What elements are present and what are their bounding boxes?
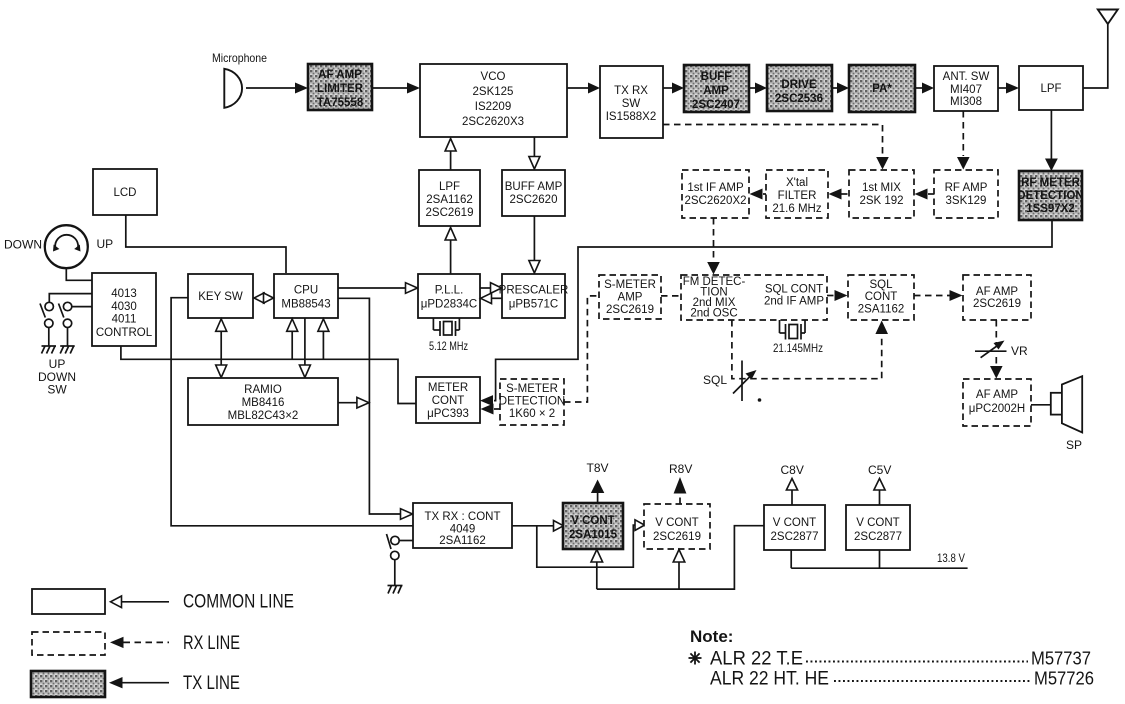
svg-text:C5V: C5V bbox=[868, 463, 891, 477]
svg-text:LPF: LPF bbox=[1040, 83, 1061, 95]
wire KEY SW left to TX RX CONT bbox=[171, 298, 413, 526]
svg-text:LPF: LPF bbox=[439, 181, 460, 193]
switch UP bbox=[40, 302, 53, 327]
svg-text:LCD: LCD bbox=[113, 187, 136, 199]
wire mic to AF AMP bbox=[246, 87, 296, 89]
wire ANT SW to LPF bbox=[998, 87, 1007, 89]
svg-text:IS2209: IS2209 bbox=[475, 101, 511, 113]
wire BUFF AMP to DRIVE bbox=[749, 87, 756, 89]
wire AF AMP to speaker bbox=[1031, 404, 1051, 406]
svg-text:X'tal: X'tal bbox=[786, 177, 808, 189]
svg-text:SQL CONT: SQL CONT bbox=[765, 284, 823, 296]
svg-text:1st IF AMP: 1st IF AMP bbox=[687, 182, 744, 194]
AF AMP 2SC2619 bbox=[963, 275, 1031, 320]
svg-text:DETECTION: DETECTION bbox=[499, 396, 565, 408]
13.8 V rail bbox=[791, 550, 967, 568]
svg-text:4030: 4030 bbox=[111, 301, 137, 313]
wire VCO to LPF2 (arrow up into VCO) bbox=[450, 150, 452, 170]
wire CPU bottom left (arrow up) bbox=[291, 331, 293, 359]
wire TX RX SW to BUFF AMP bbox=[663, 87, 673, 89]
bidirectional wire KEY SW to RAMIO bbox=[220, 331, 222, 366]
AF AMP LIMITER TA75558 bbox=[308, 64, 372, 110]
svg-text:2SC2620: 2SC2620 bbox=[510, 194, 558, 206]
svg-text:BUFF: BUFF bbox=[701, 71, 732, 83]
svg-text:RF METER: RF METER bbox=[1021, 177, 1080, 189]
C5V arrow bbox=[868, 463, 891, 505]
ground (UP switch) bbox=[42, 346, 57, 354]
wire CPU to PLL bbox=[338, 287, 406, 289]
svg-text:P.L.L.: P.L.L. bbox=[435, 285, 464, 297]
wire CPU bottom middle to RAMIO (arrow down) bbox=[304, 318, 306, 366]
note line 2 ALR 22 HT. HE M57726 bbox=[710, 669, 1094, 690]
svg-text:ANT. SW: ANT. SW bbox=[943, 71, 990, 83]
dashed wire TX RX SW to 1st MIX bbox=[663, 125, 883, 157]
DRIVE 2SC2536 bbox=[767, 65, 832, 111]
svg-text:1K60 × 2: 1K60 × 2 bbox=[509, 408, 555, 420]
svg-text:COMMON LINE: COMMON LINE bbox=[183, 592, 294, 613]
AF AMP uPC2002H bbox=[963, 379, 1031, 426]
wire switch1 to CONTROL bbox=[49, 294, 92, 302]
svg-text:CONT: CONT bbox=[432, 395, 465, 407]
wire AF AMP to VCO bbox=[372, 87, 408, 89]
SQL CONT 2SA1162 bbox=[848, 275, 914, 320]
svg-text:R8V: R8V bbox=[669, 462, 692, 476]
svg-text:2SA1015: 2SA1015 bbox=[569, 529, 618, 541]
svg-text:IS1588X2: IS1588X2 bbox=[606, 111, 657, 123]
S-METER DETECTION 1K60x2 bbox=[499, 379, 565, 425]
V CONT 2SA1015 bbox=[563, 503, 623, 549]
dashed wire 1st IF AMP down to FM DETECTION bbox=[713, 218, 715, 261]
svg-text:2SC2877: 2SC2877 bbox=[854, 531, 902, 543]
T8V arrow bbox=[587, 461, 609, 503]
svg-text:M57726: M57726 bbox=[1034, 669, 1094, 689]
RF AMP 3SK129 bbox=[934, 170, 998, 218]
svg-text:Microphone: Microphone bbox=[212, 51, 267, 65]
X tal FILTER 21.6MHz bbox=[766, 170, 828, 218]
svg-text:MB8416: MB8416 bbox=[242, 397, 285, 409]
svg-text:DETECTION: DETECTION bbox=[1017, 190, 1083, 202]
VCO bbox=[420, 64, 567, 137]
svg-text:μPB571C: μPB571C bbox=[509, 299, 558, 311]
svg-text:AF AMP: AF AMP bbox=[976, 389, 1019, 401]
dashed arrow 1st MIX to X tal FILTER bbox=[841, 193, 849, 195]
ANT. SW MI407 MI308 bbox=[934, 66, 998, 111]
svg-text:BUFF AMP: BUFF AMP bbox=[505, 181, 563, 193]
svg-text:CONT: CONT bbox=[865, 291, 898, 303]
svg-text:RAMIO: RAMIO bbox=[244, 384, 282, 396]
svg-text:1st MIX: 1st MIX bbox=[862, 182, 901, 194]
svg-text:3SK129: 3SK129 bbox=[946, 195, 987, 207]
svg-text:V CONT: V CONT bbox=[655, 517, 698, 529]
wire PLL to LPF2 (arrow up) bbox=[450, 239, 452, 274]
rail wire TX RX CONT junction down and right bbox=[537, 525, 637, 567]
svg-text:VR: VR bbox=[1011, 344, 1028, 358]
P.L.L. uPD2834C bbox=[418, 274, 480, 318]
wire BUFF AMP 2SC2620 down to PRESCALER bbox=[533, 216, 535, 262]
svg-text:CPU: CPU bbox=[294, 285, 318, 297]
svg-text:AMP: AMP bbox=[618, 292, 643, 304]
svg-text:METER: METER bbox=[428, 382, 468, 394]
RAMIO MB8416 MBL82C43x2 bbox=[188, 378, 338, 425]
svg-text:V CONT: V CONT bbox=[773, 517, 816, 529]
bus wire CPU right to TX RX CONT bbox=[338, 298, 401, 514]
svg-text:μPC2002H: μPC2002H bbox=[969, 403, 1026, 415]
svg-text:μPD2834C: μPD2834C bbox=[421, 299, 478, 311]
switch DOWN bbox=[59, 302, 72, 327]
note reference mark bbox=[689, 652, 702, 665]
rotary dial UP/DOWN bbox=[4, 225, 113, 268]
svg-text:2SA1162: 2SA1162 bbox=[426, 194, 472, 206]
wire LPF down to RF METER DETECTION bbox=[1050, 110, 1052, 160]
4013 4030 4011 CONTROL bbox=[92, 273, 156, 346]
arrows PLL / PRESCALER bbox=[480, 283, 502, 304]
svg-text:V CONT: V CONT bbox=[571, 515, 614, 527]
svg-text:2SK125: 2SK125 bbox=[473, 86, 514, 98]
svg-text:T8V: T8V bbox=[587, 461, 609, 475]
V CONT 2SC2877 (C5V) bbox=[846, 505, 910, 550]
svg-text:SQL: SQL bbox=[703, 373, 727, 387]
1st MIX 2SK 192 bbox=[849, 170, 914, 218]
VR potentiometer bbox=[975, 341, 1028, 359]
PTT switch bbox=[387, 534, 414, 586]
R8V arrow bbox=[669, 462, 692, 504]
svg-text:2SC2407: 2SC2407 bbox=[692, 99, 740, 111]
svg-text:4013: 4013 bbox=[111, 288, 137, 300]
dashed arrow X tal FILTER to 1st IF AMP bbox=[763, 193, 766, 195]
note line 1 ALR 22 T.E M57737 bbox=[710, 649, 1091, 670]
wire switch2 to ground bbox=[67, 328, 69, 347]
V CONT 2SC2619 bbox=[644, 504, 710, 549]
svg-text:UP: UP bbox=[97, 237, 114, 251]
dashed wire FM DETECTION bottom to SQL CONT bottom bbox=[732, 320, 882, 379]
dashed wire S-METER DETECTION to S-METER AMP bbox=[564, 296, 599, 402]
wire VCO down to BUFF AMP 2SC2620 bbox=[533, 137, 535, 158]
dashed arrow S-METER DETECTION to METER CONT bbox=[494, 408, 500, 410]
svg-text:KEY SW: KEY SW bbox=[198, 291, 243, 303]
svg-text:RX LINE: RX LINE bbox=[183, 633, 240, 654]
svg-text:TA75558: TA75558 bbox=[317, 97, 364, 109]
svg-text:4011: 4011 bbox=[112, 314, 137, 326]
svg-text:2nd OSC: 2nd OSC bbox=[690, 308, 737, 320]
wire switch1 to ground bbox=[48, 328, 50, 347]
svg-text:2SA1162: 2SA1162 bbox=[439, 535, 485, 547]
BUFF AMP 2SC2620 bbox=[502, 170, 565, 216]
LPF 2SA1162 2SC2619 bbox=[419, 170, 480, 226]
svg-text:SW: SW bbox=[47, 383, 67, 397]
svg-text:1SS97X2: 1SS97X2 bbox=[1026, 203, 1075, 215]
svg-text:Note:: Note: bbox=[690, 627, 733, 646]
svg-text:PRESCALER: PRESCALER bbox=[499, 285, 569, 297]
svg-text:2SC2536: 2SC2536 bbox=[775, 93, 823, 105]
SQL potentiometer bbox=[703, 361, 761, 402]
S-METER AMP 2SC2619 bbox=[599, 275, 661, 319]
wire RF METER DETECTION to METER CONT bbox=[494, 220, 1052, 401]
svg-text:DOWN: DOWN bbox=[4, 238, 42, 252]
crystal 5.12 MHz bbox=[429, 318, 468, 353]
svg-text:SW: SW bbox=[622, 98, 641, 110]
svg-text:PA*: PA* bbox=[872, 83, 892, 95]
V CONT 2SC2877 (C8V) bbox=[764, 505, 825, 550]
svg-text:SP: SP bbox=[1066, 438, 1082, 452]
svg-text:AF AMP: AF AMP bbox=[976, 286, 1019, 298]
BUFF AMP 2SC2407 bbox=[684, 65, 749, 112]
svg-text:4049: 4049 bbox=[450, 524, 476, 536]
svg-text:CONTROL: CONTROL bbox=[96, 327, 153, 339]
wire RAMIO to bus (arrow right) bbox=[338, 402, 358, 404]
ground (DOWN switch) bbox=[60, 346, 74, 354]
svg-text:TX RX : CONT: TX RX : CONT bbox=[424, 511, 500, 523]
svg-text:2SC2620X3: 2SC2620X3 bbox=[462, 116, 524, 128]
dashed wire S-METER AMP to FM DETECTION bbox=[661, 295, 681, 297]
microphone bbox=[212, 51, 267, 108]
svg-text:ALR 22 T.E: ALR 22 T.E bbox=[710, 649, 803, 670]
legend RX LINE bbox=[32, 632, 240, 655]
METER CONT uPC393 bbox=[416, 377, 480, 423]
LPF (output) bbox=[1019, 66, 1083, 110]
wire TX RX CONT to V CONT 2SA1015 with junction bbox=[512, 525, 555, 527]
RF METER DETECTION 1SS97X2 bbox=[1017, 171, 1083, 220]
supply rail to V CONT bottoms bbox=[597, 526, 764, 589]
wire VCO to TX RX SW bbox=[567, 87, 589, 89]
dashed wire AF AMP 2SC2619 to VR to AF AMP uPC2002H bbox=[995, 320, 997, 345]
wire dial to CONTROL bbox=[66, 268, 92, 280]
svg-text:SQL: SQL bbox=[869, 279, 893, 291]
wire LCD to CPU bbox=[126, 215, 286, 273]
dashed arrow RF AMP to 1st MIX bbox=[928, 193, 934, 195]
wire switch2 to CONTROL bbox=[72, 306, 92, 308]
svg-text:2SC2619: 2SC2619 bbox=[653, 531, 701, 543]
svg-text:V CONT: V CONT bbox=[856, 517, 899, 529]
svg-text:21.6 MHz: 21.6 MHz bbox=[772, 203, 821, 215]
PA* bbox=[849, 65, 915, 112]
PRESCALER uPB571C bbox=[499, 274, 569, 318]
antenna bbox=[1083, 10, 1118, 89]
crystal 21.145 MHz bbox=[773, 320, 823, 355]
svg-text:LIMITER: LIMITER bbox=[317, 83, 364, 95]
svg-text:2SC2619: 2SC2619 bbox=[426, 207, 474, 219]
svg-text:DRIVE: DRIVE bbox=[781, 79, 816, 91]
label UP DOWN SW bbox=[38, 357, 76, 397]
svg-text:MBL82C43×2: MBL82C43×2 bbox=[228, 410, 299, 422]
1st IF AMP 2SC2620X2 bbox=[682, 170, 749, 218]
svg-text:AF AMP: AF AMP bbox=[318, 69, 362, 81]
LCD bbox=[93, 169, 157, 215]
svg-text:C8V: C8V bbox=[781, 463, 804, 477]
svg-text:S-METER: S-METER bbox=[506, 383, 558, 395]
svg-text:RF AMP: RF AMP bbox=[945, 182, 988, 194]
dashed arrow FM DETECTION to SQL CONT bbox=[827, 295, 836, 297]
legend COMMON LINE bbox=[32, 589, 294, 614]
svg-text:2SK 192: 2SK 192 bbox=[859, 195, 903, 207]
svg-text:FILTER: FILTER bbox=[778, 190, 817, 202]
svg-text:AMP: AMP bbox=[703, 85, 729, 97]
svg-text:2SC2620X2: 2SC2620X2 bbox=[684, 195, 746, 207]
CPU MB88543 bbox=[274, 274, 338, 318]
TX RX : CONT 4049 2SA1162 bbox=[413, 503, 512, 548]
svg-text:S-METER: S-METER bbox=[604, 279, 656, 291]
C8V arrow bbox=[781, 463, 804, 505]
dashed arrow SQL CONT to AF AMP 2SC2619 bbox=[914, 295, 951, 297]
FM DETECTION 2nd MIX 2nd OSC / SQL CONT 2nd IF AMP bbox=[681, 275, 827, 320]
wire PA to ANT SW bbox=[915, 87, 922, 89]
svg-text:MB88543: MB88543 bbox=[281, 299, 330, 311]
svg-text:2SA1162: 2SA1162 bbox=[858, 304, 904, 316]
svg-text:2SC2619: 2SC2619 bbox=[606, 304, 654, 316]
dashed wire ANT SW to RF AMP bbox=[962, 111, 964, 156]
speaker SP bbox=[1051, 376, 1082, 452]
svg-text:UP: UP bbox=[49, 357, 66, 371]
svg-text:M57737: M57737 bbox=[1031, 649, 1091, 669]
svg-text:TX RX: TX RX bbox=[614, 85, 648, 97]
svg-text:MI308: MI308 bbox=[950, 96, 982, 108]
svg-text:21.145MHz: 21.145MHz bbox=[773, 341, 823, 355]
KEY SW bbox=[188, 274, 253, 318]
bidirectional arrows KEY SW / CPU bbox=[254, 293, 274, 303]
svg-text:13.8 V: 13.8 V bbox=[937, 551, 965, 565]
svg-text:TX LINE: TX LINE bbox=[183, 673, 240, 694]
legend TX LINE bbox=[31, 671, 240, 697]
wire DRIVE to PA bbox=[832, 87, 838, 89]
svg-text:2SC2877: 2SC2877 bbox=[771, 531, 819, 543]
svg-text:MI407: MI407 bbox=[950, 84, 982, 96]
svg-text:μPC393: μPC393 bbox=[427, 408, 469, 420]
ground (PTT switch) bbox=[388, 586, 403, 594]
wire V CONT 2SC2619 bottom (arrow up) bbox=[678, 561, 680, 589]
svg-text:2SC2619: 2SC2619 bbox=[973, 298, 1021, 310]
wire CONTROL bottom to METER CONT bbox=[121, 346, 416, 404]
svg-text:ALR 22 HT. HE: ALR 22 HT. HE bbox=[710, 669, 829, 690]
wire V CONT 2SA1015 bottom (arrow up) bbox=[596, 561, 598, 589]
svg-text:VCO: VCO bbox=[481, 71, 506, 83]
svg-text:5.12 MHz: 5.12 MHz bbox=[429, 339, 468, 353]
TX RX SW IS1588X2 bbox=[600, 66, 663, 138]
wire CPU bottom right (arrow up) bbox=[322, 331, 324, 359]
svg-text:2nd IF AMP: 2nd IF AMP bbox=[764, 296, 824, 308]
